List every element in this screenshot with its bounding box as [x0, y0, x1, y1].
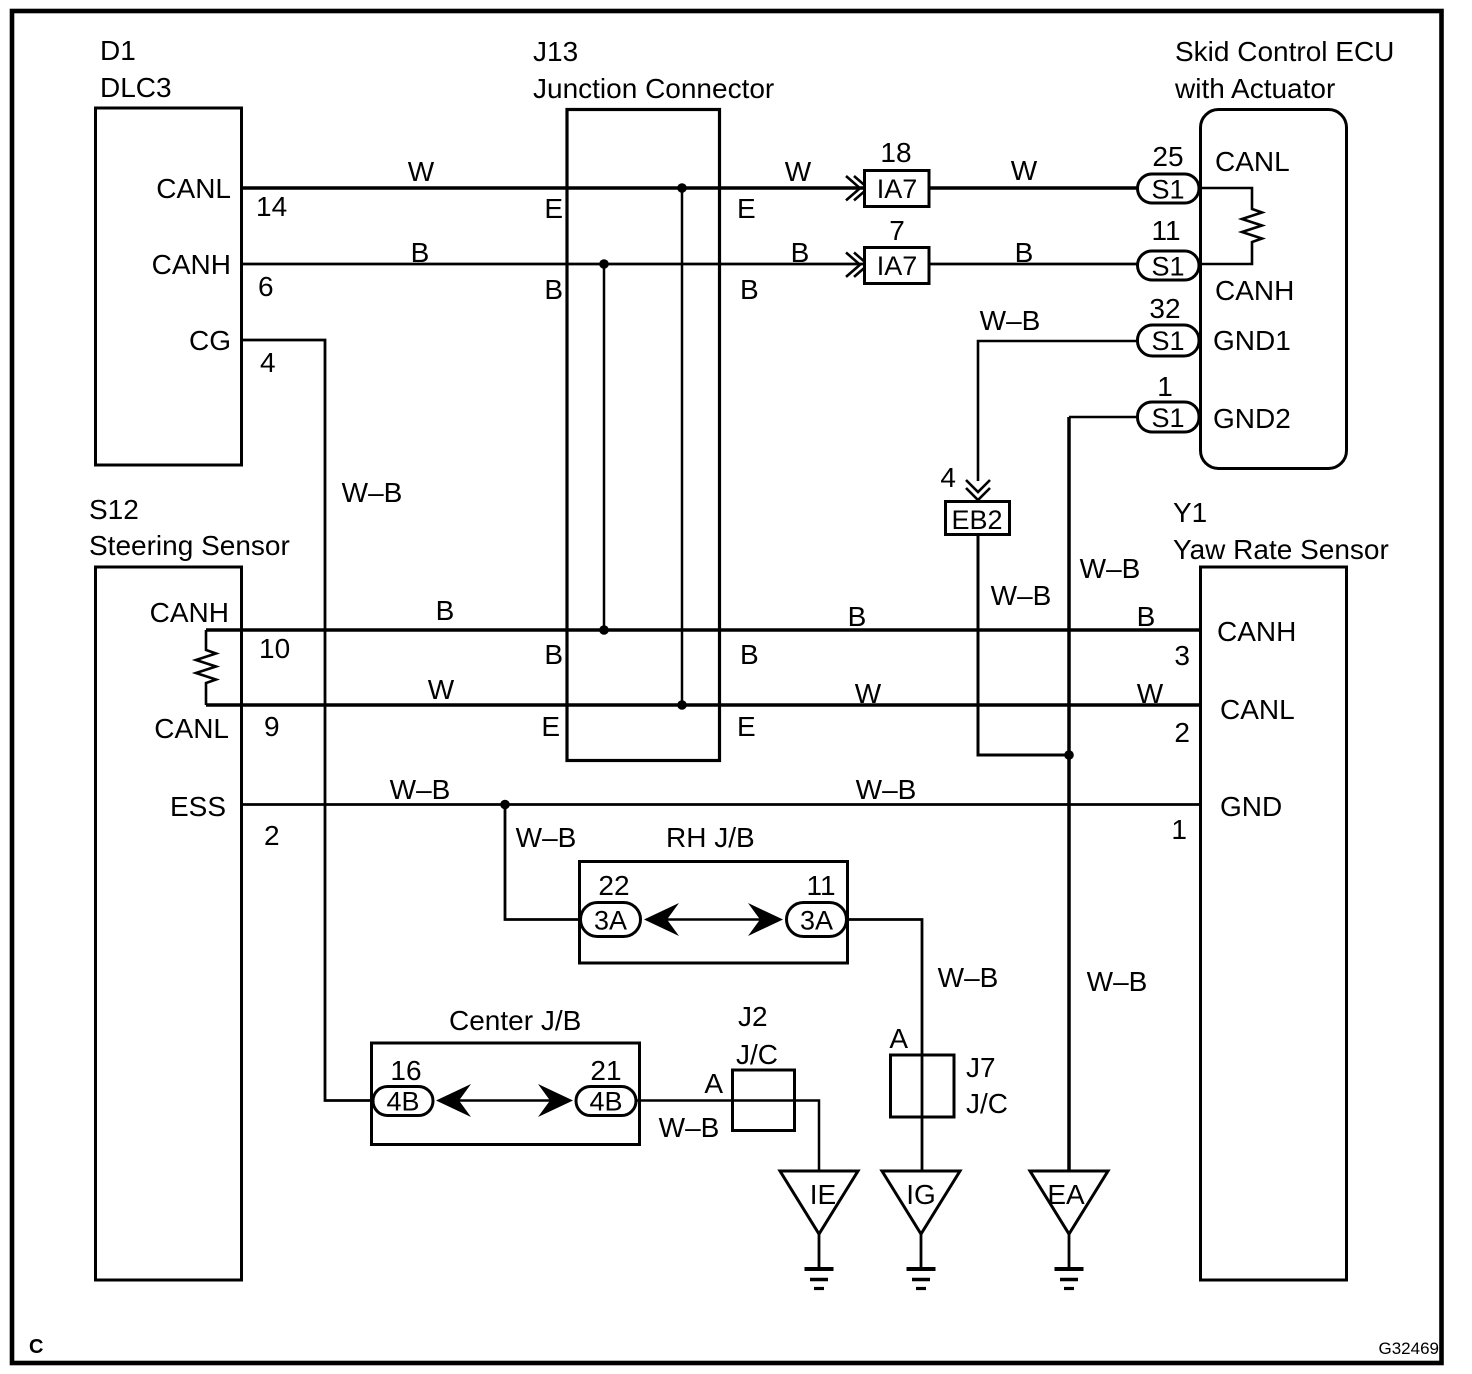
ECU box Skid Control ECU with Actuator — [1174, 36, 1394, 469]
svg-text:W–B: W–B — [856, 774, 917, 805]
wire W-B ESS to yaw GND — [241, 803, 1201, 806]
svg-text:Center J/B: Center J/B — [449, 1005, 581, 1036]
svg-text:J/C: J/C — [966, 1088, 1008, 1119]
wire CG W-B down to Center J/B — [241, 340, 373, 1101]
wire EB2 down to GND2 line — [978, 535, 1069, 755]
junction dot — [677, 183, 687, 193]
junction dot — [1064, 750, 1074, 760]
svg-text:CG: CG — [189, 325, 231, 356]
svg-text:21: 21 — [590, 1055, 621, 1086]
wire W-B GND1 — [978, 341, 1137, 481]
svg-text:W–B: W–B — [938, 962, 999, 993]
svg-text:EB2: EB2 — [951, 505, 1002, 535]
junction dot — [500, 800, 510, 810]
svg-text:D1: D1 — [100, 35, 136, 66]
wire W-B GND2 vertical to EA — [1067, 417, 1071, 1171]
svg-text:3A: 3A — [800, 906, 833, 936]
svg-text:S1: S1 — [1151, 403, 1184, 433]
svg-text:18: 18 — [880, 137, 911, 168]
svg-text:B: B — [848, 601, 867, 632]
svg-text:B: B — [1015, 237, 1034, 268]
svg-text:10: 10 — [259, 633, 290, 664]
connector S12 Steering Sensor — [89, 494, 290, 1280]
svg-text:16: 16 — [390, 1055, 421, 1086]
svg-text:S12: S12 — [89, 494, 139, 525]
svg-text:7: 7 — [889, 215, 905, 246]
svg-text:G32469: G32469 — [1379, 1339, 1440, 1358]
svg-text:C: C — [29, 1336, 43, 1358]
connector IA7 pin 7 — [846, 215, 929, 284]
connector 4B pin 21 — [576, 1055, 636, 1117]
svg-text:GND1: GND1 — [1213, 325, 1291, 356]
connector D1 DLC3 — [96, 35, 288, 465]
svg-text:CANL: CANL — [1215, 146, 1290, 177]
svg-text:IA7: IA7 — [877, 174, 918, 204]
svg-text:1: 1 — [1157, 371, 1173, 402]
svg-text:EA: EA — [1047, 1179, 1085, 1210]
svg-text:E: E — [737, 193, 756, 224]
svg-text:CANL: CANL — [154, 713, 229, 744]
svg-text:2: 2 — [264, 820, 280, 851]
svg-text:W: W — [785, 156, 812, 187]
wire B CANH DLC3 to IA7 — [241, 263, 865, 266]
svg-text:9: 9 — [264, 711, 280, 742]
svg-text:CANL: CANL — [156, 173, 231, 204]
svg-text:4B: 4B — [386, 1087, 419, 1117]
svg-text:CANH: CANH — [150, 597, 229, 628]
svg-text:6: 6 — [258, 271, 274, 302]
arrow right — [748, 903, 783, 936]
svg-text:ESS: ESS — [170, 791, 226, 822]
svg-text:Y1: Y1 — [1173, 497, 1207, 528]
wire W IA7 to S1 — [929, 186, 1137, 189]
ground IE — [780, 1171, 858, 1289]
svg-text:CANH: CANH — [152, 249, 231, 280]
svg-text:GND: GND — [1220, 791, 1282, 822]
svg-text:J2: J2 — [738, 1001, 768, 1032]
svg-text:2: 2 — [1174, 717, 1190, 748]
wire branch down to RH J/B — [505, 805, 580, 920]
svg-text:B: B — [544, 639, 563, 670]
svg-text:J13: J13 — [533, 36, 578, 67]
svg-text:S1: S1 — [1151, 326, 1184, 356]
svg-text:CANH: CANH — [1217, 616, 1296, 647]
connector S1 pin 1 — [1138, 371, 1200, 433]
wire W CANL DLC3 to IA7 — [241, 186, 865, 189]
J13 inner vertical wire W — [681, 188, 684, 705]
svg-text:Junction Connector: Junction Connector — [533, 73, 774, 104]
svg-text:W–B: W–B — [991, 580, 1052, 611]
svg-text:Steering Sensor: Steering Sensor — [89, 530, 290, 561]
svg-text:Skid Control ECU: Skid Control ECU — [1175, 36, 1394, 67]
J13 inner vertical wire B — [603, 264, 606, 630]
arrow left — [644, 903, 679, 936]
svg-text:B: B — [740, 639, 759, 670]
svg-text:W–B: W–B — [980, 305, 1041, 336]
svg-text:A: A — [889, 1023, 908, 1054]
ground EA — [1030, 1171, 1108, 1289]
connector Y1 Yaw Rate Sensor — [1171, 497, 1388, 1280]
svg-text:Yaw Rate Sensor: Yaw Rate Sensor — [1173, 534, 1389, 565]
arrow right — [538, 1084, 573, 1117]
wire B CAN bus steering CANH to yaw — [206, 628, 1201, 631]
svg-text:J7: J7 — [966, 1052, 996, 1083]
svg-text:B: B — [436, 595, 455, 626]
terminating resistor steering sensor — [196, 630, 216, 705]
svg-text:W: W — [1011, 155, 1038, 186]
connector 3A pin 22 — [581, 870, 641, 937]
arrow left — [436, 1084, 471, 1117]
connector 3A pin 11 — [787, 870, 847, 937]
svg-text:A: A — [704, 1068, 723, 1099]
junction dot — [599, 625, 609, 635]
svg-text:W–B: W–B — [342, 477, 403, 508]
svg-text:IE: IE — [810, 1179, 836, 1210]
svg-text:3: 3 — [1174, 640, 1190, 671]
svg-text:W: W — [408, 156, 435, 187]
svg-text:14: 14 — [256, 191, 287, 222]
junction dot — [599, 259, 609, 269]
svg-text:with Actuator: with Actuator — [1174, 73, 1335, 104]
connector EB2 pin 4 — [940, 462, 1009, 535]
junction block RH J/B — [580, 822, 848, 963]
svg-text:22: 22 — [598, 870, 629, 901]
svg-text:W–B: W–B — [659, 1112, 720, 1143]
svg-text:11: 11 — [806, 870, 835, 901]
svg-text:E: E — [541, 711, 560, 742]
svg-text:3A: 3A — [594, 906, 627, 936]
svg-text:W–B: W–B — [1080, 553, 1141, 584]
wire between arrows — [459, 1099, 550, 1102]
svg-text:E: E — [544, 193, 563, 224]
junction connector J7 J/C — [889, 1023, 1008, 1119]
wire from 3A to J7 and IG — [847, 920, 922, 1172]
svg-text:W: W — [428, 674, 455, 705]
wire between arrows — [667, 918, 762, 921]
svg-text:B: B — [411, 237, 430, 268]
connector 4B pin 16 — [373, 1055, 433, 1117]
svg-text:W–B: W–B — [1087, 966, 1148, 997]
connector S1 pin 11 — [1138, 215, 1200, 282]
svg-text:W: W — [855, 678, 882, 709]
terminating resistor inside ECU — [1199, 188, 1262, 264]
connector IA7 pin 18 — [846, 137, 929, 207]
svg-text:B: B — [740, 274, 759, 305]
svg-text:J/C: J/C — [736, 1039, 778, 1070]
svg-text:4: 4 — [940, 462, 956, 493]
svg-text:DLC3: DLC3 — [100, 72, 172, 103]
wire 4B to J2 to IE — [636, 1099, 733, 1102]
svg-text:RH J/B: RH J/B — [666, 822, 755, 853]
ground IG — [882, 1171, 960, 1289]
junction block Center J/B — [372, 1005, 640, 1145]
svg-text:4: 4 — [260, 347, 276, 378]
svg-text:W–B: W–B — [516, 822, 577, 853]
svg-text:11: 11 — [1151, 215, 1180, 246]
connector S1 pin 32 — [1138, 293, 1200, 356]
junction connector J2 J/C — [733, 1001, 795, 1131]
junction connector J13 — [533, 36, 774, 761]
svg-text:B: B — [791, 237, 810, 268]
svg-text:IA7: IA7 — [877, 251, 918, 281]
svg-text:25: 25 — [1152, 141, 1183, 172]
svg-text:B: B — [544, 274, 563, 305]
svg-text:CANL: CANL — [1220, 694, 1295, 725]
svg-text:CANH: CANH — [1215, 275, 1294, 306]
svg-text:W: W — [1137, 678, 1164, 709]
svg-text:1: 1 — [1171, 814, 1187, 845]
wire W CAN bus steering CANL to yaw — [206, 703, 1201, 706]
svg-text:W–B: W–B — [390, 774, 451, 805]
svg-text:S1: S1 — [1151, 252, 1184, 282]
wire GND2 to vertical — [1069, 416, 1137, 419]
svg-text:IG: IG — [906, 1179, 936, 1210]
svg-text:S1: S1 — [1151, 175, 1184, 205]
svg-text:4B: 4B — [589, 1087, 622, 1117]
junction dot — [677, 700, 687, 710]
svg-text:32: 32 — [1149, 293, 1180, 324]
svg-text:E: E — [737, 711, 756, 742]
wire B IA7 to S1 — [929, 263, 1137, 266]
svg-text:GND2: GND2 — [1213, 403, 1291, 434]
connector S1 pin 25 — [1138, 141, 1200, 205]
svg-text:B: B — [1137, 601, 1156, 632]
